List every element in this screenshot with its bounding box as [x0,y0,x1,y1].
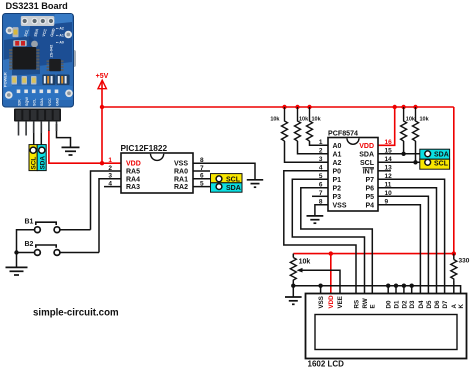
wire PIC pin7 RA0 stub [193,170,210,172]
svg-text:RS: RS [353,300,360,309]
wire ground bus under LCD [293,286,460,294]
svg-text:SQW: SQW [25,97,29,106]
svg-text:5: 5 [319,173,323,180]
svg-text:1: 1 [319,139,323,146]
net tag SDA (at PIC RA2) [211,183,243,192]
svg-text:15: 15 [385,148,393,155]
node: +5V rail junction [100,105,104,109]
svg-text:3: 3 [108,173,112,180]
crystal [31,41,38,48]
net tag SCL (left, vertical) [29,145,38,171]
svg-text:SDA: SDA [226,185,241,192]
svg-text:SCL: SCL [360,160,375,167]
svg-text:RA2: RA2 [174,184,188,191]
svg-text:VDD: VDD [359,143,374,150]
svg-text:D5: D5 [426,300,433,308]
svg-text:VSS: VSS [333,202,347,209]
svg-text:E: E [370,304,377,308]
node: D0 junction [386,284,390,288]
svg-text:+5V: +5V [96,73,109,80]
wire DS3231 GND pin to ground [57,124,71,147]
svg-text:P1: P1 [333,177,342,184]
+5V supply symbol [96,73,109,89]
svg-text:SDA: SDA [434,152,449,159]
svg-text:GND: GND [55,97,59,106]
svg-text:8: 8 [200,157,204,164]
solder pads row [17,90,59,94]
svg-text:RA3: RA3 [126,184,140,191]
svg-text:RA1: RA1 [174,176,188,183]
wire PCF P1 pin5 to LCD RW [292,179,364,293]
svg-text:3: 3 [319,156,323,163]
node: rail tap PCF VDD [393,105,397,109]
svg-text:10k: 10k [299,259,311,266]
potentiometer RV1 10k [290,258,296,282]
PCB [3,14,74,108]
wire R3 bottom to PCF A0 [310,141,329,145]
svg-text:10k: 10k [420,116,430,122]
node: pot bottom junction [291,284,295,288]
svg-text:P4: P4 [365,202,374,209]
svg-text:K: K [458,304,465,309]
svg-text:VDD: VDD [126,161,141,168]
svg-text:11: 11 [385,182,392,189]
svg-text:14: 14 [385,156,393,163]
svg-text:SCL: SCL [31,157,38,170]
header pins [19,121,57,136]
svg-text:A2: A2 [333,160,342,167]
wire B2 left [17,252,35,254]
node: D1 junction [394,284,398,288]
svg-text:A1: A1 [333,151,342,158]
svg-text:2: 2 [319,148,323,155]
svg-text:▪▪ A0: ▪▪ A0 [56,41,64,45]
wire PCF SDA pin15 to tag [378,153,425,155]
module DS3231 RTC board [2,1,76,136]
svg-text:330: 330 [459,258,470,265]
svg-text:RA4: RA4 [126,176,140,183]
wire PIC pin2 RA5 to B1 [91,171,122,230]
svg-text:PIC12F1822: PIC12F1822 [121,143,168,153]
svg-text:SCL: SCL [434,160,449,167]
node: 330 resistor tap [452,251,456,255]
svg-text:16: 16 [385,139,393,146]
node: rail tap R2 [295,105,299,109]
svg-text:10k: 10k [312,116,322,122]
wire LCD D2 drop [403,286,405,294]
svg-text:A0: A0 [333,143,342,150]
svg-text:VDD: VDD [328,295,335,309]
top 4-pin header [21,16,55,26]
wire PCF INT pin13 stub [378,170,391,172]
svg-text:VSS: VSS [174,161,188,168]
svg-text:P3: P3 [333,194,342,201]
svg-text:VEE: VEE [337,296,344,308]
resistor R1 10k (A2 pullup) [282,107,288,141]
svg-text:P2: P2 [333,185,342,192]
svg-text:A: A [451,304,458,309]
svg-text:10k: 10k [299,116,309,122]
wire pot top stub [292,254,294,258]
svg-text:B2: B2 [25,241,34,248]
svg-text:7: 7 [319,190,323,197]
wire PCF P3 pin7 stub [312,195,328,197]
svg-text:1602 LCD: 1602 LCD [308,360,345,369]
node: SDA pullup junction [401,152,405,156]
node: rail tap R5 [413,105,417,109]
wire PIC pin4 RA3 stub [104,186,121,188]
red striped component [13,40,27,46]
wire LCD D3 drop [411,286,413,294]
svg-text:P6: P6 [365,185,374,192]
switch B1 pushbutton [25,218,60,232]
svg-text:32K: 32K [17,99,21,106]
ground below buttons [6,267,28,275]
wire DS3231 SCL pin to tag [33,124,35,147]
resistor R2 10k (A1 pullup) [295,107,301,141]
svg-text:simple-circuit.com: simple-circuit.com [33,307,119,318]
wire PCF P7 pin12 to LCD D7 [378,179,445,293]
wire right rail down to LCD VDD row [293,107,454,254]
wire R2 bottom to PCF A1 [298,141,329,154]
svg-text:D3: D3 [409,300,416,308]
wire PIC pin8 VSS to ground [193,163,255,179]
svg-text:10k: 10k [406,116,416,122]
wire PCF P2 pin6 to LCD E [301,188,373,294]
svg-text:DS3231 Board: DS3231 Board [6,1,68,11]
resistor R6 330 (backlight) [451,260,457,282]
svg-text:RA0: RA0 [174,169,188,176]
svg-text:VSS: VSS [318,296,325,308]
wire PIC pin5 RA2 to SDA tag [193,186,216,188]
svg-text:P7: P7 [365,177,374,184]
svg-text:D1: D1 [393,300,400,308]
ground at PCF VSS [307,216,324,223]
svg-text:4: 4 [108,180,112,187]
node: rail tap R1 [282,105,286,109]
wire +5V stem down through rail to PIC VDD node [101,82,103,164]
svg-text:SDA: SDA [359,151,374,158]
wire LCD D0 drop [387,286,389,294]
net tag SCL (at PCF pin14) [420,159,450,169]
ground near DS3231 [62,147,80,155]
wire VCC pin of DS3231 down to VDD rail of PIC [49,130,121,163]
wire PCF P4 pin9 to LCD D4 [378,205,420,294]
wire pot wiper to LCD VEE [299,270,340,293]
battery holder sliver [70,50,76,67]
svg-text:RW: RW [362,298,369,308]
wire B1 right [60,229,91,231]
svg-text:9: 9 [385,199,389,206]
wire LCD VDD drop [330,254,332,294]
svg-text:VCC: VCC [48,98,52,106]
wire B1 left to ground rail [17,230,35,268]
wire PCF SCL pin14 to tag [378,161,425,163]
node: LCD VSS junction [318,284,322,288]
svg-text:1: 1 [108,157,112,164]
bottom pin header [14,109,61,122]
svg-text:6: 6 [200,173,204,180]
svg-text:▪▪ A1: ▪▪ A1 [56,34,64,38]
wire B2 right [60,252,99,254]
ground at PIC VSS [247,180,263,187]
svg-text:D6: D6 [434,300,441,308]
svg-text:INT: INT [363,168,375,175]
resistor R3 10k (A0 pullup) [307,107,313,141]
node: SCL pullup junction [413,160,417,164]
node: LCD VDD tap [329,251,333,255]
wire PCF VSS pin8 to ground [315,205,328,216]
wire 330 bottom to LCD A [453,281,455,294]
wire LCD D1 drop [395,286,397,294]
svg-text:P5: P5 [365,194,374,201]
wire pot bottom stub [292,282,294,297]
display LCD1 1602 [306,294,467,369]
node: rail tap R4 [401,105,405,109]
wire LCD VSS drop [320,286,322,294]
wire PIC pin3 RA4 to B2 [99,179,121,253]
net tag SCL (at PIC RA1) [211,174,243,184]
wire PCF P6 pin11 to LCD D6 [378,188,437,294]
svg-text:10: 10 [385,190,393,197]
svg-text:2: 2 [108,165,112,172]
svg-text:▪▪ A2: ▪▪ A2 [56,27,64,31]
DS3231 chip [9,49,39,70]
svg-text:ZS-042: ZS-042 [49,44,54,58]
net tag SDA (at PCF pin15) [420,149,450,159]
svg-text:D0: D0 [386,300,393,308]
node: PIC VDD junction [100,161,104,165]
net tag SDA (left, vertical) [37,145,46,171]
node: D3 junction [410,284,414,288]
svg-text:SDA: SDA [40,98,44,106]
wire R4 bottom to SDA line [403,141,405,154]
wire PCF P5 pin10 to LCD D5 [378,196,428,293]
svg-text:5: 5 [200,180,204,187]
op-amp U2: PCF8574 I/O expander [319,129,392,211]
mounting holes [6,27,14,35]
LED component [13,27,19,37]
svg-text:D7: D7 [442,300,449,308]
svg-text:13: 13 [385,165,393,172]
wire R1 bottom to PCF A2 [285,141,329,162]
svg-text:B1: B1 [25,218,34,225]
svg-text:7: 7 [200,165,204,172]
bottom passives [12,76,18,85]
resistor R4 10k (SDA pullup) [401,107,407,141]
wire PIC pin6 RA1 to SCL tag [193,178,216,180]
svg-text:6: 6 [319,182,323,189]
node: D2 junction [402,284,406,288]
wire 330 top stub [453,254,455,260]
svg-text:8: 8 [319,199,323,206]
svg-text:P0: P0 [333,168,342,175]
wire DS3231 SDA pin to tag [40,124,42,147]
svg-text:RA5: RA5 [126,169,140,176]
wire PCF P0 pin4 to LCD RS [284,171,356,294]
wire R5 bottom to SCL line [415,141,417,162]
svg-text:4: 4 [319,165,323,172]
svg-text:10k: 10k [270,116,280,122]
svg-text:SCL: SCL [33,98,37,106]
resistor R5 10k (SCL pullup) [413,107,419,141]
op-amp U1: PIC12F1822 MCU [108,143,204,193]
ground at potentiometer [285,297,302,304]
svg-text:POWER: POWER [2,72,7,87]
svg-text:SDA: SDA [39,156,46,170]
wire +5V top rail [102,106,454,108]
svg-text:PCF8574: PCF8574 [328,129,358,137]
wire PCF8574 VDD pin16 riser [378,107,395,145]
node: rail tap R3 [307,105,311,109]
svg-text:D2: D2 [401,300,408,308]
EEPROM chip [47,60,64,71]
switch B2 pushbutton [25,241,60,255]
node: B1/B2 ground junction [14,250,18,254]
svg-text:12: 12 [385,173,393,180]
svg-text:D4: D4 [418,300,425,308]
